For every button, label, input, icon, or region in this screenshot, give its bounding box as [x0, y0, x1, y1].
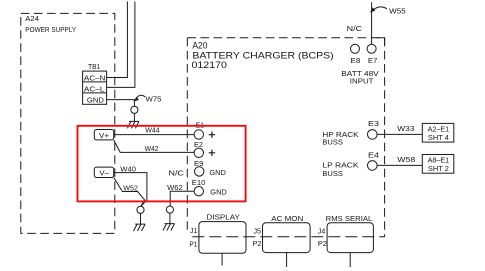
svg-text:POWER SUPPLY: POWER SUPPLY	[25, 25, 76, 34]
W75 arrowhead	[134, 97, 139, 102]
svg-text:W55: W55	[389, 7, 406, 16]
ref box A2-E1	[422, 123, 454, 142]
source tag V+	[94, 130, 113, 140]
connector J5 cable stub	[286, 253, 288, 267]
svg-text:P2: P2	[318, 239, 327, 248]
terminal E7	[367, 44, 376, 53]
svg-text:W33: W33	[397, 124, 414, 133]
terminal block TB1	[83, 71, 107, 104]
terminal E2	[194, 148, 203, 157]
connector J1/P1 DISPLAY box	[199, 222, 246, 254]
ground stem W40/W52	[140, 213, 142, 224]
svg-text:P2: P2	[253, 239, 262, 248]
connector J4 cable stub	[349, 253, 351, 267]
svg-text:W40: W40	[120, 165, 136, 174]
wire W44	[114, 134, 194, 136]
svg-text:BUSS: BUSS	[322, 137, 343, 146]
plus sign E1	[209, 132, 215, 138]
terminal E10	[194, 187, 203, 196]
source tag V-	[94, 167, 113, 177]
svg-text:LP RACK: LP RACK	[322, 160, 358, 169]
svg-text:DISPLAY: DISPLAY	[207, 213, 241, 222]
svg-text:RMS SERIAL: RMS SERIAL	[326, 214, 373, 223]
ref box A8-E1	[422, 155, 454, 174]
svg-text:012170: 012170	[192, 60, 227, 71]
wire AC-L feed	[107, 2, 135, 88]
red highlight box annotation	[78, 126, 246, 202]
svg-text:N/C: N/C	[169, 169, 185, 178]
A20 connector interface line (dashed)	[192, 236, 384, 238]
terminal E9 (N/C)	[195, 167, 204, 176]
svg-text:W62: W62	[167, 183, 183, 192]
svg-text:GND: GND	[209, 168, 226, 177]
W55 arrowhead	[370, 7, 376, 12]
svg-text:J1: J1	[190, 226, 198, 235]
wire GND feed to W75 junction	[107, 100, 135, 107]
ground stem W62	[169, 213, 171, 223]
A24 power supply enclosure (dashed)	[21, 13, 115, 233]
svg-text:W75: W75	[146, 94, 162, 103]
svg-text:P1: P1	[189, 239, 197, 248]
svg-text:W52: W52	[123, 184, 138, 193]
junction connector circle W62	[166, 206, 173, 213]
wire W55 battery input	[371, 2, 373, 44]
A20 enclosure right edge (dashed)	[384, 38, 386, 237]
svg-text:E9: E9	[194, 159, 204, 168]
svg-text:W58: W58	[397, 155, 415, 164]
terminal E4	[368, 161, 378, 171]
svg-text:N/C: N/C	[347, 24, 363, 33]
A20 enclosure left edge (dashed)	[186, 38, 188, 232]
svg-text:V–: V–	[99, 168, 109, 177]
wire AC-N feed	[107, 2, 128, 78]
svg-text:V+: V+	[99, 131, 109, 140]
svg-text:E7: E7	[368, 56, 378, 65]
svg-text:AC MON: AC MON	[271, 214, 303, 223]
connector J1 cable stub	[221, 253, 223, 265]
svg-text:SHT 2: SHT 2	[428, 164, 449, 173]
wire W40	[114, 173, 147, 207]
ground (chassis) under W62	[163, 224, 175, 231]
wire W62	[170, 191, 194, 206]
terminal E1	[194, 130, 203, 139]
svg-text:J5: J5	[254, 226, 262, 235]
wire W33	[377, 133, 423, 135]
junction W75 connector circle	[131, 106, 138, 113]
svg-text:TB1: TB1	[88, 62, 100, 71]
svg-text:AC–L: AC–L	[84, 84, 105, 93]
svg-text:GND: GND	[87, 96, 104, 105]
svg-text:W42: W42	[145, 144, 159, 153]
svg-text:SHT 4: SHT 4	[428, 133, 449, 142]
svg-text:J4: J4	[318, 226, 326, 235]
ground (chassis) under W75	[127, 121, 139, 128]
svg-text:BUSS: BUSS	[322, 169, 343, 178]
svg-text:INPUT: INPUT	[350, 77, 374, 86]
svg-text:A24: A24	[25, 14, 39, 23]
wire W75 ground stem	[133, 113, 135, 121]
svg-text:E2: E2	[194, 140, 203, 149]
terminal E3	[368, 130, 378, 140]
connector J4/P2 RMS SERIAL box	[327, 223, 373, 253]
terminal E8	[351, 44, 360, 53]
A20 top-right corner	[377, 38, 385, 46]
W75 leader arrow	[136, 95, 145, 99]
connector J5/P2 AC MON box	[263, 223, 311, 253]
ground (chassis) under W40/W52	[134, 224, 146, 231]
junction connector circle W40/W52	[137, 206, 144, 213]
W55 leader arrow	[374, 7, 387, 10]
svg-text:GND: GND	[210, 187, 227, 196]
plus sign E2	[209, 150, 215, 156]
svg-text:E10: E10	[192, 178, 206, 187]
wire W52	[114, 178, 145, 207]
svg-text:E8: E8	[350, 56, 360, 65]
wire W42	[114, 140, 194, 153]
wire W58	[377, 164, 423, 166]
svg-text:E4: E4	[368, 151, 379, 160]
svg-text:AC–N: AC–N	[84, 73, 105, 82]
A20 enclosure top edge (dashed)	[187, 37, 384, 39]
svg-text:E3: E3	[368, 119, 379, 128]
